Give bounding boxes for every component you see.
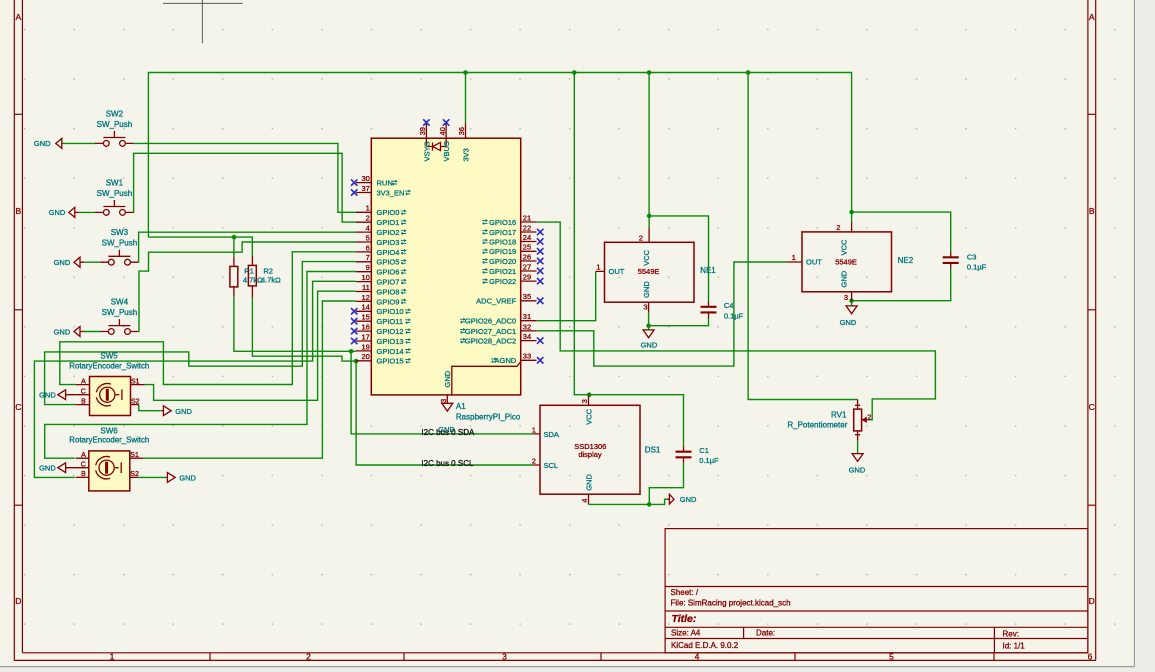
wire GND display pin4 to flag <box>589 499 668 504</box>
svg-text:40: 40 <box>438 127 447 135</box>
ground flag at SW5 C pin <box>39 390 76 400</box>
svg-text:10: 10 <box>361 273 369 282</box>
svg-text:3V3: 3V3 <box>461 148 470 161</box>
ground flag at display <box>667 494 697 504</box>
svg-text:25: 25 <box>523 243 531 252</box>
wire GPIO7 to SW6 B <box>34 281 356 477</box>
svg-text:GND: GND <box>179 474 196 483</box>
ground <box>840 306 858 327</box>
svg-text:Date:: Date: <box>756 629 775 638</box>
wire 3V3 pin36 drop <box>465 73 467 124</box>
svg-text:GPIO6: GPIO6 <box>377 268 400 277</box>
IC NE1 5549E <box>596 228 717 313</box>
wire GPIO6 to SW6 A <box>45 272 356 459</box>
ground <box>438 403 455 434</box>
svg-text:GPIO21: GPIO21 <box>489 267 516 276</box>
wire 3V3 to NE1 VCC <box>648 73 650 228</box>
svg-text:SW_Push: SW_Push <box>102 239 138 248</box>
svg-text:D: D <box>15 596 21 606</box>
U1 pin names <box>377 141 517 387</box>
svg-text:GND: GND <box>49 208 66 217</box>
svg-text:Rev:: Rev: <box>1003 630 1019 639</box>
svg-text:6: 6 <box>366 243 370 252</box>
ground <box>641 330 658 350</box>
ground flag at SW4 <box>54 327 84 337</box>
svg-text:R_Potentiometer: R_Potentiometer <box>787 420 847 429</box>
svg-text:GPIO22: GPIO22 <box>489 277 516 286</box>
svg-text:4: 4 <box>366 224 370 233</box>
svg-text:GND: GND <box>39 391 56 400</box>
title block <box>665 529 1088 653</box>
svg-text:SW3: SW3 <box>111 228 129 237</box>
ground flag at SW6 C pin <box>39 463 76 473</box>
svg-text:GPIO13: GPIO13 <box>377 337 404 346</box>
svg-text:GPIO0: GPIO0 <box>377 208 400 217</box>
wire SW4 to GPIO3 <box>84 242 356 332</box>
svg-text:SW_Push: SW_Push <box>97 120 133 129</box>
svg-text:B: B <box>81 398 86 405</box>
svg-text:5549E: 5549E <box>835 258 857 267</box>
svg-text:39: 39 <box>418 127 427 135</box>
op-amp U1 RaspberryPi Pico A1 body <box>371 138 520 395</box>
svg-text:I2C bus 0 SCL: I2C bus 0 SCL <box>421 459 474 468</box>
svg-text:GND: GND <box>54 327 71 336</box>
svg-text:1: 1 <box>596 262 600 271</box>
svg-text:RaspberryPI_Pico: RaspberryPI_Pico <box>456 412 521 421</box>
svg-text:NE1: NE1 <box>700 266 716 275</box>
switch SW1 SW_Push <box>95 178 133 215</box>
wire SW3 to GPIO2 <box>84 232 356 262</box>
svg-text:3V3_EN: 3V3_EN <box>377 188 405 197</box>
svg-text:SW2: SW2 <box>106 109 124 118</box>
svg-text:3: 3 <box>502 652 507 662</box>
svg-text:34: 34 <box>523 332 531 341</box>
svg-text:2: 2 <box>532 456 536 465</box>
svg-text:2: 2 <box>366 214 370 223</box>
svg-text:SW_Push: SW_Push <box>97 189 133 198</box>
svg-text:Size: A4: Size: A4 <box>671 629 701 638</box>
svg-text:29: 29 <box>523 273 531 282</box>
svg-text:R2: R2 <box>263 267 273 276</box>
svg-text:36: 36 <box>457 127 466 135</box>
svg-text:GPIO26_ADC0: GPIO26_ADC0 <box>465 317 516 326</box>
switch SW3 SW_Push <box>100 228 138 265</box>
svg-text:B: B <box>15 206 21 216</box>
svg-text:GPIO18: GPIO18 <box>489 237 516 246</box>
ground flag at SW3 <box>54 257 84 267</box>
svg-text:DS1: DS1 <box>645 445 661 454</box>
capacitor C4 0.1uF <box>701 301 744 320</box>
svg-text:24: 24 <box>523 233 531 242</box>
svg-text:SW_Push: SW_Push <box>102 308 138 317</box>
svg-text:32: 32 <box>523 322 531 331</box>
switch SW4 SW_Push <box>100 298 138 335</box>
svg-text:C: C <box>15 402 21 412</box>
svg-text:RUN: RUN <box>377 179 393 188</box>
svg-text:I2C bus 0 SDA: I2C bus 0 SDA <box>421 428 475 437</box>
svg-text:1: 1 <box>532 425 536 434</box>
svg-text:C3: C3 <box>967 253 977 262</box>
wire C4 bottom to NE1 GND <box>649 312 709 330</box>
svg-text:GPIO20: GPIO20 <box>489 257 516 266</box>
svg-text:SDA: SDA <box>544 430 559 439</box>
svg-text:SCL: SCL <box>544 461 559 470</box>
svg-text:37: 37 <box>361 184 369 193</box>
svg-text:3: 3 <box>580 399 589 403</box>
svg-text:SW1: SW1 <box>106 178 124 187</box>
svg-text:1: 1 <box>366 204 370 213</box>
svg-text:11: 11 <box>362 283 370 292</box>
rotary encoder SW5 <box>69 351 149 415</box>
svg-text:D: D <box>1089 596 1095 606</box>
svg-text:Title:: Title: <box>672 613 697 625</box>
svg-text:A: A <box>15 12 21 22</box>
svg-text:GND: GND <box>34 139 51 148</box>
svg-text:SW4: SW4 <box>111 298 129 307</box>
svg-text:16: 16 <box>361 323 369 332</box>
svg-text:GND: GND <box>39 464 56 473</box>
svg-text:A1: A1 <box>456 402 466 411</box>
svg-text:GPIO8: GPIO8 <box>377 287 400 296</box>
svg-text:22: 22 <box>523 223 531 232</box>
svg-text:GPIO7: GPIO7 <box>377 278 400 287</box>
wire 3V3 rail <box>148 73 851 238</box>
svg-text:OUT: OUT <box>609 267 625 276</box>
switch SW2 SW_Push <box>95 109 133 146</box>
svg-text:GND: GND <box>443 370 452 387</box>
U1 pin direction indicators <box>392 180 497 363</box>
svg-text:GPIO3: GPIO3 <box>377 238 400 247</box>
display DS1 SSD1306 <box>532 395 661 504</box>
svg-text:20: 20 <box>361 352 369 361</box>
ground flag at SW5 S2 <box>162 406 193 416</box>
svg-text:SW6: SW6 <box>100 426 118 435</box>
svg-text:0.1µF: 0.1µF <box>699 456 719 465</box>
wire R1 bottom to pin19 <box>234 297 356 352</box>
svg-text:VBUS: VBUS <box>442 141 451 161</box>
capacitor C3 0.1uF <box>943 252 987 272</box>
svg-text:GND: GND <box>584 474 593 491</box>
svg-text:GND: GND <box>642 281 651 298</box>
svg-text:2: 2 <box>867 412 871 421</box>
wire GPIO16 to RV1 wiper <box>537 222 936 420</box>
wire GPIO26_ADC0 to NE1 OUT <box>537 271 596 320</box>
svg-text:A: A <box>81 378 86 385</box>
svg-text:SW5: SW5 <box>100 351 118 360</box>
ground flag at SW1 <box>49 207 79 217</box>
U1 pin stubs <box>356 124 537 404</box>
svg-text:GPIO14: GPIO14 <box>377 347 404 356</box>
wire GPIO27_ADC1 to NE2 OUT <box>537 262 787 366</box>
svg-text:GPIO17: GPIO17 <box>489 228 516 237</box>
potentiometer RV1 <box>787 400 871 441</box>
svg-text:S1: S1 <box>131 378 140 385</box>
svg-text:VCC: VCC <box>584 408 593 424</box>
svg-text:GND: GND <box>849 465 866 474</box>
svg-text:GND: GND <box>680 495 697 504</box>
svg-text:7: 7 <box>366 253 370 262</box>
svg-text:3: 3 <box>439 399 448 403</box>
svg-text:GPIO11: GPIO11 <box>377 317 404 326</box>
svg-text:2: 2 <box>836 223 840 232</box>
svg-text:0.1µF: 0.1µF <box>724 311 744 320</box>
svg-text:S1: S1 <box>130 452 139 459</box>
svg-text:GPIO15: GPIO15 <box>377 357 404 366</box>
svg-text:Sheet: /: Sheet: / <box>671 588 699 597</box>
resistor R1 4.7k <box>230 257 263 297</box>
cursor crosshair <box>163 0 243 43</box>
svg-text:33: 33 <box>523 352 531 361</box>
wire GPIO9 to SW6 S1 <box>143 301 356 458</box>
wire R2 bottom to pin20 <box>252 298 356 361</box>
svg-text:2: 2 <box>639 234 643 243</box>
svg-text:GND: GND <box>840 318 857 327</box>
svg-text:12: 12 <box>361 293 369 302</box>
svg-text:1: 1 <box>792 253 796 262</box>
svg-text:GND: GND <box>54 258 71 267</box>
ground flag at SW2 <box>34 138 63 148</box>
svg-text:RV1: RV1 <box>831 410 847 419</box>
svg-text:GPIO16: GPIO16 <box>489 218 516 227</box>
svg-text:0.1µF: 0.1µF <box>967 263 987 272</box>
svg-text:3: 3 <box>643 303 647 312</box>
svg-text:3: 3 <box>844 293 848 302</box>
svg-text:C: C <box>1089 402 1095 412</box>
svg-text:GPIO9: GPIO9 <box>377 297 400 306</box>
wire C1 bottom to GND junction <box>649 463 683 505</box>
U1 reference A1 <box>456 402 521 421</box>
svg-text:35: 35 <box>523 292 531 301</box>
svg-text:GPIO5: GPIO5 <box>377 258 400 267</box>
ground <box>849 454 866 475</box>
wire NE1 VCC branch to C4 <box>649 216 708 302</box>
svg-text:A: A <box>1089 12 1095 22</box>
svg-text:2: 2 <box>306 652 311 662</box>
svg-text:Id: 1/1: Id: 1/1 <box>1003 642 1026 651</box>
capacitor C1 0.1uF <box>676 446 720 465</box>
wire SW2 to GPIO0 <box>63 143 356 212</box>
wire SDA GPIO14 to display <box>351 351 533 434</box>
svg-text:4.7kΩ: 4.7kΩ <box>261 276 281 285</box>
svg-text:14: 14 <box>361 303 369 312</box>
svg-text:C4: C4 <box>724 301 734 310</box>
U1 no-connect X marks <box>351 119 543 363</box>
svg-text:RotaryEncoder_Switch: RotaryEncoder_Switch <box>69 436 149 445</box>
resistor R2 4.7k <box>248 256 281 298</box>
svg-text:A: A <box>81 452 86 459</box>
svg-text:C1: C1 <box>699 446 709 455</box>
wire GPIO8 to SW5 S1 <box>145 291 356 400</box>
wire SCL GPIO15 to display <box>356 361 533 465</box>
rotary encoder SW6 <box>69 426 149 491</box>
canvas outside page <box>1135 0 1155 672</box>
svg-text:GPIO2: GPIO2 <box>377 228 400 237</box>
svg-text:30: 30 <box>361 174 369 183</box>
wire 3V3 to RV1 top <box>748 73 858 400</box>
wire 3V3 pullup feed to R1 R2 <box>148 237 252 257</box>
svg-text:KiCad E.D.A. 9.0.2: KiCad E.D.A. 9.0.2 <box>671 641 739 650</box>
wire 3V3 to display VCC and C1 <box>574 73 683 447</box>
svg-text:AGND: AGND <box>495 356 517 365</box>
svg-text:File: SimRacing project.kicad_: File: SimRacing project.kicad_sch <box>671 599 791 608</box>
svg-text:5: 5 <box>366 233 370 242</box>
IC NE2 5549E <box>787 222 914 302</box>
svg-text:1: 1 <box>110 652 115 662</box>
svg-text:27: 27 <box>523 262 531 271</box>
svg-text:5549E: 5549E <box>638 267 660 276</box>
svg-text:RotaryEncoder_Switch: RotaryEncoder_Switch <box>69 361 149 370</box>
wire C3 bottom to NE2 GND <box>852 269 951 306</box>
svg-text:B: B <box>81 471 86 478</box>
svg-text:GPIO27_ADC1: GPIO27_ADC1 <box>465 327 516 336</box>
svg-text:15: 15 <box>361 313 369 322</box>
svg-text:17: 17 <box>361 332 369 341</box>
wire SW5 S2 to GND flag <box>139 405 162 411</box>
svg-text:GND: GND <box>839 270 848 287</box>
wire SW1 to GPIO1 <box>79 153 356 222</box>
svg-text:21: 21 <box>523 213 531 222</box>
svg-text:VCC: VCC <box>839 239 848 255</box>
svg-text:GPIO19: GPIO19 <box>489 247 516 256</box>
svg-text:VCC: VCC <box>642 249 651 265</box>
wire GPIO4 to SW5 A <box>60 252 356 385</box>
svg-text:GND: GND <box>175 407 192 416</box>
wire RV1 bottom to GND <box>857 441 859 454</box>
svg-text:S2: S2 <box>130 471 139 478</box>
svg-text:ADC_VREF: ADC_VREF <box>476 297 516 306</box>
svg-text:26: 26 <box>523 252 531 261</box>
svg-text:VSYS: VSYS <box>422 141 431 161</box>
svg-text:31: 31 <box>523 312 531 321</box>
svg-text:GND: GND <box>641 341 658 350</box>
svg-text:GPIO10: GPIO10 <box>377 307 404 316</box>
wire SW6 S2 to GND flag <box>138 476 166 478</box>
wire NE2 VCC branch to C3 <box>852 212 951 252</box>
svg-text:B: B <box>1089 206 1095 216</box>
svg-text:GPIO12: GPIO12 <box>377 327 404 336</box>
svg-text:9: 9 <box>366 263 370 272</box>
svg-text:display: display <box>578 450 602 459</box>
U1 pin numbers <box>361 127 531 403</box>
ground flag at SW6 S2 <box>166 473 197 483</box>
svg-text:GPIO4: GPIO4 <box>377 248 400 257</box>
svg-text:19: 19 <box>361 342 369 351</box>
svg-text:C: C <box>81 461 86 468</box>
svg-text:NE2: NE2 <box>898 256 914 265</box>
wire GPIO5 to SW5 B <box>45 262 356 405</box>
svg-text:S2: S2 <box>131 398 140 405</box>
svg-text:4: 4 <box>580 499 589 503</box>
svg-text:C: C <box>81 388 86 395</box>
svg-text:GPIO1: GPIO1 <box>377 218 400 227</box>
svg-text:GPIO28_ADC2: GPIO28_ADC2 <box>465 337 516 346</box>
svg-text:OUT: OUT <box>806 258 822 267</box>
